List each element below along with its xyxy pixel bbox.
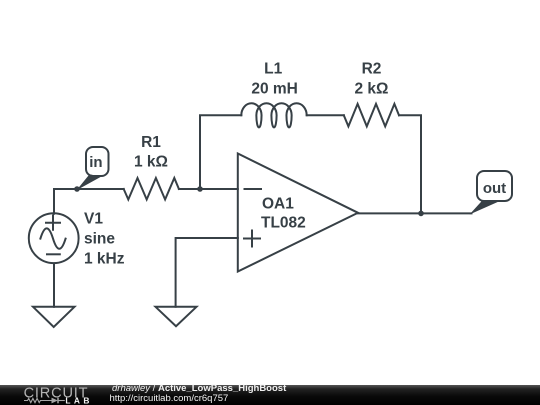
V1 minus sign [47,253,60,255]
wire non-inverting input to ground [176,238,238,307]
ground GND1 [33,307,75,327]
node junction dot feedback tap [197,186,203,192]
svg-text:1 kHz: 1 kHz [84,251,125,268]
svg-text:sine: sine [84,231,115,248]
ground GND2 [156,307,197,326]
op-amp OA1 triangle [238,154,358,272]
node junction dot input tap [74,186,80,192]
op-amp plus symbol [244,231,260,247]
resistor R1 [124,178,179,200]
wire op-amp output [358,212,472,214]
svg-text:in: in [89,154,102,171]
wire main horizontal input net [54,189,124,214]
resistor R2 [344,104,399,127]
V1 plus sign [46,216,60,230]
wire L1 to R2 [307,114,344,116]
svg-text:2 kΩ: 2 kΩ [355,81,389,98]
wire feedback tap vertical [200,115,241,189]
wire R2 to output node vertical [399,115,421,213]
svg-text:20 mH: 20 mH [251,81,298,98]
circuitlab logo [0,384,100,405]
svg-text:LAB: LAB [65,395,92,405]
footer bar [0,385,540,405]
svg-text:OA1: OA1 [262,196,294,213]
svg-text:L1: L1 [264,60,282,77]
svg-text:R2: R2 [362,60,382,77]
flag out pointer [470,200,499,214]
svg-text:TL082: TL082 [261,215,306,232]
wire R1 to op-amp inverting input [179,188,238,190]
voltage source V1 circle [29,213,79,263]
inductor L1 [241,103,306,127]
flag in box [86,147,109,176]
svg-text:R1: R1 [141,134,161,151]
op-amp minus symbol [245,188,262,190]
svg-text:1 kΩ: 1 kΩ [134,154,168,171]
footer credit line 1 [112,384,286,394]
flag out box [477,171,512,201]
wire V1 to ground [53,264,55,307]
flag in pointer [77,174,102,190]
svg-text:out: out [483,180,506,197]
V1 sine wave [40,228,65,248]
footer credit line 2 [110,394,229,404]
svg-text:V1: V1 [84,211,103,228]
node junction dot output [418,211,424,217]
